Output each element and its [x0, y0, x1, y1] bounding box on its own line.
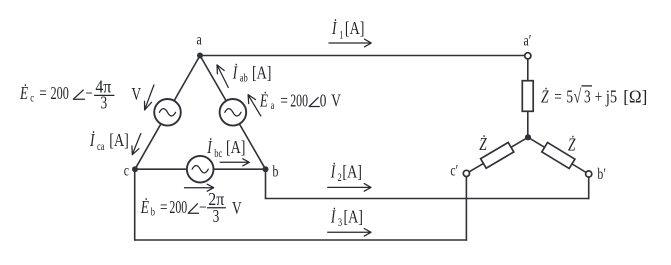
- svg-text:ab: ab: [240, 73, 248, 86]
- svg-text:İ: İ: [330, 207, 336, 227]
- label terminal c': [450, 162, 458, 180]
- svg-text:b: b: [273, 163, 279, 181]
- svg-text:[A]: [A]: [226, 138, 245, 157]
- wire delta edge a-b: [200, 56, 266, 170]
- terminal b' (open circle): [586, 171, 592, 177]
- label node b: [273, 163, 279, 181]
- arrow Ec: [145, 85, 154, 110]
- arrow I3: [328, 229, 371, 237]
- svg-text:j5: j5: [605, 86, 617, 107]
- svg-text:[A]: [A]: [344, 208, 363, 227]
- arrow Eb: [185, 184, 214, 191]
- label EMF Ea = 200 angle 0 V: [259, 90, 341, 112]
- label current Ica[A]: [89, 130, 129, 154]
- svg-text:2: 2: [338, 172, 342, 185]
- svg-text:=: =: [554, 88, 562, 107]
- arrow Iab: [217, 65, 228, 88]
- source Vab (circle on edge a-b): [220, 99, 247, 126]
- svg-text:Ė: Ė: [259, 90, 268, 110]
- svg-text:0: 0: [320, 92, 327, 111]
- svg-text:3: 3: [584, 88, 591, 107]
- svg-text:2π: 2π: [208, 189, 224, 209]
- source Vbc (circle on edge c-b): [187, 156, 214, 183]
- label terminal b': [597, 165, 606, 183]
- svg-text:200: 200: [290, 91, 308, 111]
- label current I3[A]: [330, 207, 363, 230]
- impedance Z vertical (a' branch): [522, 81, 533, 112]
- label node c: [124, 162, 129, 180]
- svg-text:Ė: Ė: [19, 83, 28, 103]
- svg-text:=: =: [280, 92, 288, 111]
- wire delta edge a-c: [135, 56, 200, 170]
- label impedance Z left: [479, 134, 487, 154]
- wire I2 line: [265, 198, 589, 200]
- svg-text:200: 200: [51, 84, 70, 104]
- wire I3 bottom line: [135, 239, 467, 241]
- impedance Z right slant (b' branch): [542, 142, 575, 168]
- label impedance value Z = 5sqrt3 + j5 [ohm]: [541, 86, 647, 108]
- source Vca (circle on edge c-a): [154, 99, 181, 126]
- svg-text:−: −: [85, 84, 93, 103]
- svg-text:Ż: Ż: [479, 134, 487, 154]
- svg-text:bc: bc: [214, 148, 222, 161]
- wire b down: [265, 169, 267, 198]
- svg-text:Ė: Ė: [140, 197, 149, 217]
- label impedance Z right: [568, 135, 576, 155]
- terminal a' (open circle): [525, 53, 531, 59]
- svg-text:İ: İ: [331, 18, 337, 38]
- svg-text:İ: İ: [206, 137, 212, 157]
- wire neutral to b': [528, 137, 589, 174]
- svg-text:200: 200: [169, 198, 187, 218]
- node a (junction dot): [197, 53, 203, 59]
- svg-text:a: a: [271, 100, 275, 113]
- wire a to a' (top line): [200, 55, 525, 57]
- svg-text:b′: b′: [597, 165, 606, 183]
- terminal c' (open circle): [463, 170, 469, 176]
- wire neutral to c': [466, 137, 528, 173]
- svg-text:3: 3: [338, 217, 342, 230]
- svg-text:V: V: [232, 199, 242, 218]
- arrow Ica: [132, 134, 141, 155]
- svg-text:√: √: [574, 86, 582, 108]
- label current I1[A]: [331, 18, 364, 42]
- svg-text:5: 5: [566, 88, 573, 107]
- label current Ibc[A]: [206, 137, 245, 160]
- svg-text:ca: ca: [97, 141, 105, 154]
- svg-text:İ: İ: [89, 130, 95, 150]
- node b (junction dot): [263, 166, 269, 172]
- label current I2[A]: [330, 162, 362, 185]
- svg-text:+: +: [595, 88, 603, 107]
- wire c down: [134, 169, 136, 241]
- label node a: [197, 31, 203, 49]
- svg-text:[A]: [A]: [252, 64, 271, 83]
- svg-text:[A]: [A]: [342, 163, 361, 182]
- svg-text:=: =: [160, 198, 168, 217]
- arrow I1: [329, 39, 371, 47]
- svg-text:V: V: [331, 92, 341, 111]
- node neutral (junction dot): [525, 134, 531, 140]
- label EMF Eb = 200 angle -2pi/3 V: [140, 189, 242, 227]
- label current Iab[A]: [232, 62, 272, 85]
- svg-text:[Ω]: [Ω]: [623, 86, 647, 107]
- wire c' vertical: [465, 176, 467, 241]
- svg-text:İ: İ: [330, 162, 336, 182]
- svg-text:=: =: [39, 84, 47, 103]
- svg-text:İ: İ: [232, 62, 238, 82]
- svg-text:b: b: [151, 206, 155, 219]
- impedance Z left slant (c' branch): [481, 142, 514, 168]
- arrow I2: [328, 184, 371, 192]
- svg-text:c′: c′: [450, 162, 458, 180]
- svg-text:[A]: [A]: [109, 132, 128, 151]
- svg-text:a: a: [197, 31, 203, 49]
- wire b' vertical: [588, 177, 590, 199]
- svg-text:c: c: [124, 162, 129, 180]
- label terminal a': [524, 32, 532, 50]
- wire a' to load: [527, 59, 529, 81]
- wire load Z top to neutral: [527, 111, 529, 138]
- svg-text:3: 3: [101, 94, 108, 113]
- label EMF Ec = 200 angle -4pi/3 V: [19, 76, 141, 113]
- svg-text:c: c: [30, 92, 34, 105]
- svg-text:[A]: [A]: [345, 20, 364, 39]
- arrow Ibc: [220, 159, 249, 166]
- svg-text:3: 3: [213, 207, 220, 226]
- svg-text:V: V: [132, 85, 142, 104]
- arrow Ea: [248, 95, 261, 116]
- svg-text:Ż: Ż: [541, 87, 549, 107]
- svg-text:a′: a′: [524, 32, 532, 50]
- wire delta edge c-b: [135, 168, 266, 170]
- svg-text:1: 1: [339, 30, 343, 43]
- svg-text:−: −: [199, 198, 207, 217]
- svg-text:Ż: Ż: [568, 135, 576, 155]
- node c (junction dot): [132, 166, 138, 172]
